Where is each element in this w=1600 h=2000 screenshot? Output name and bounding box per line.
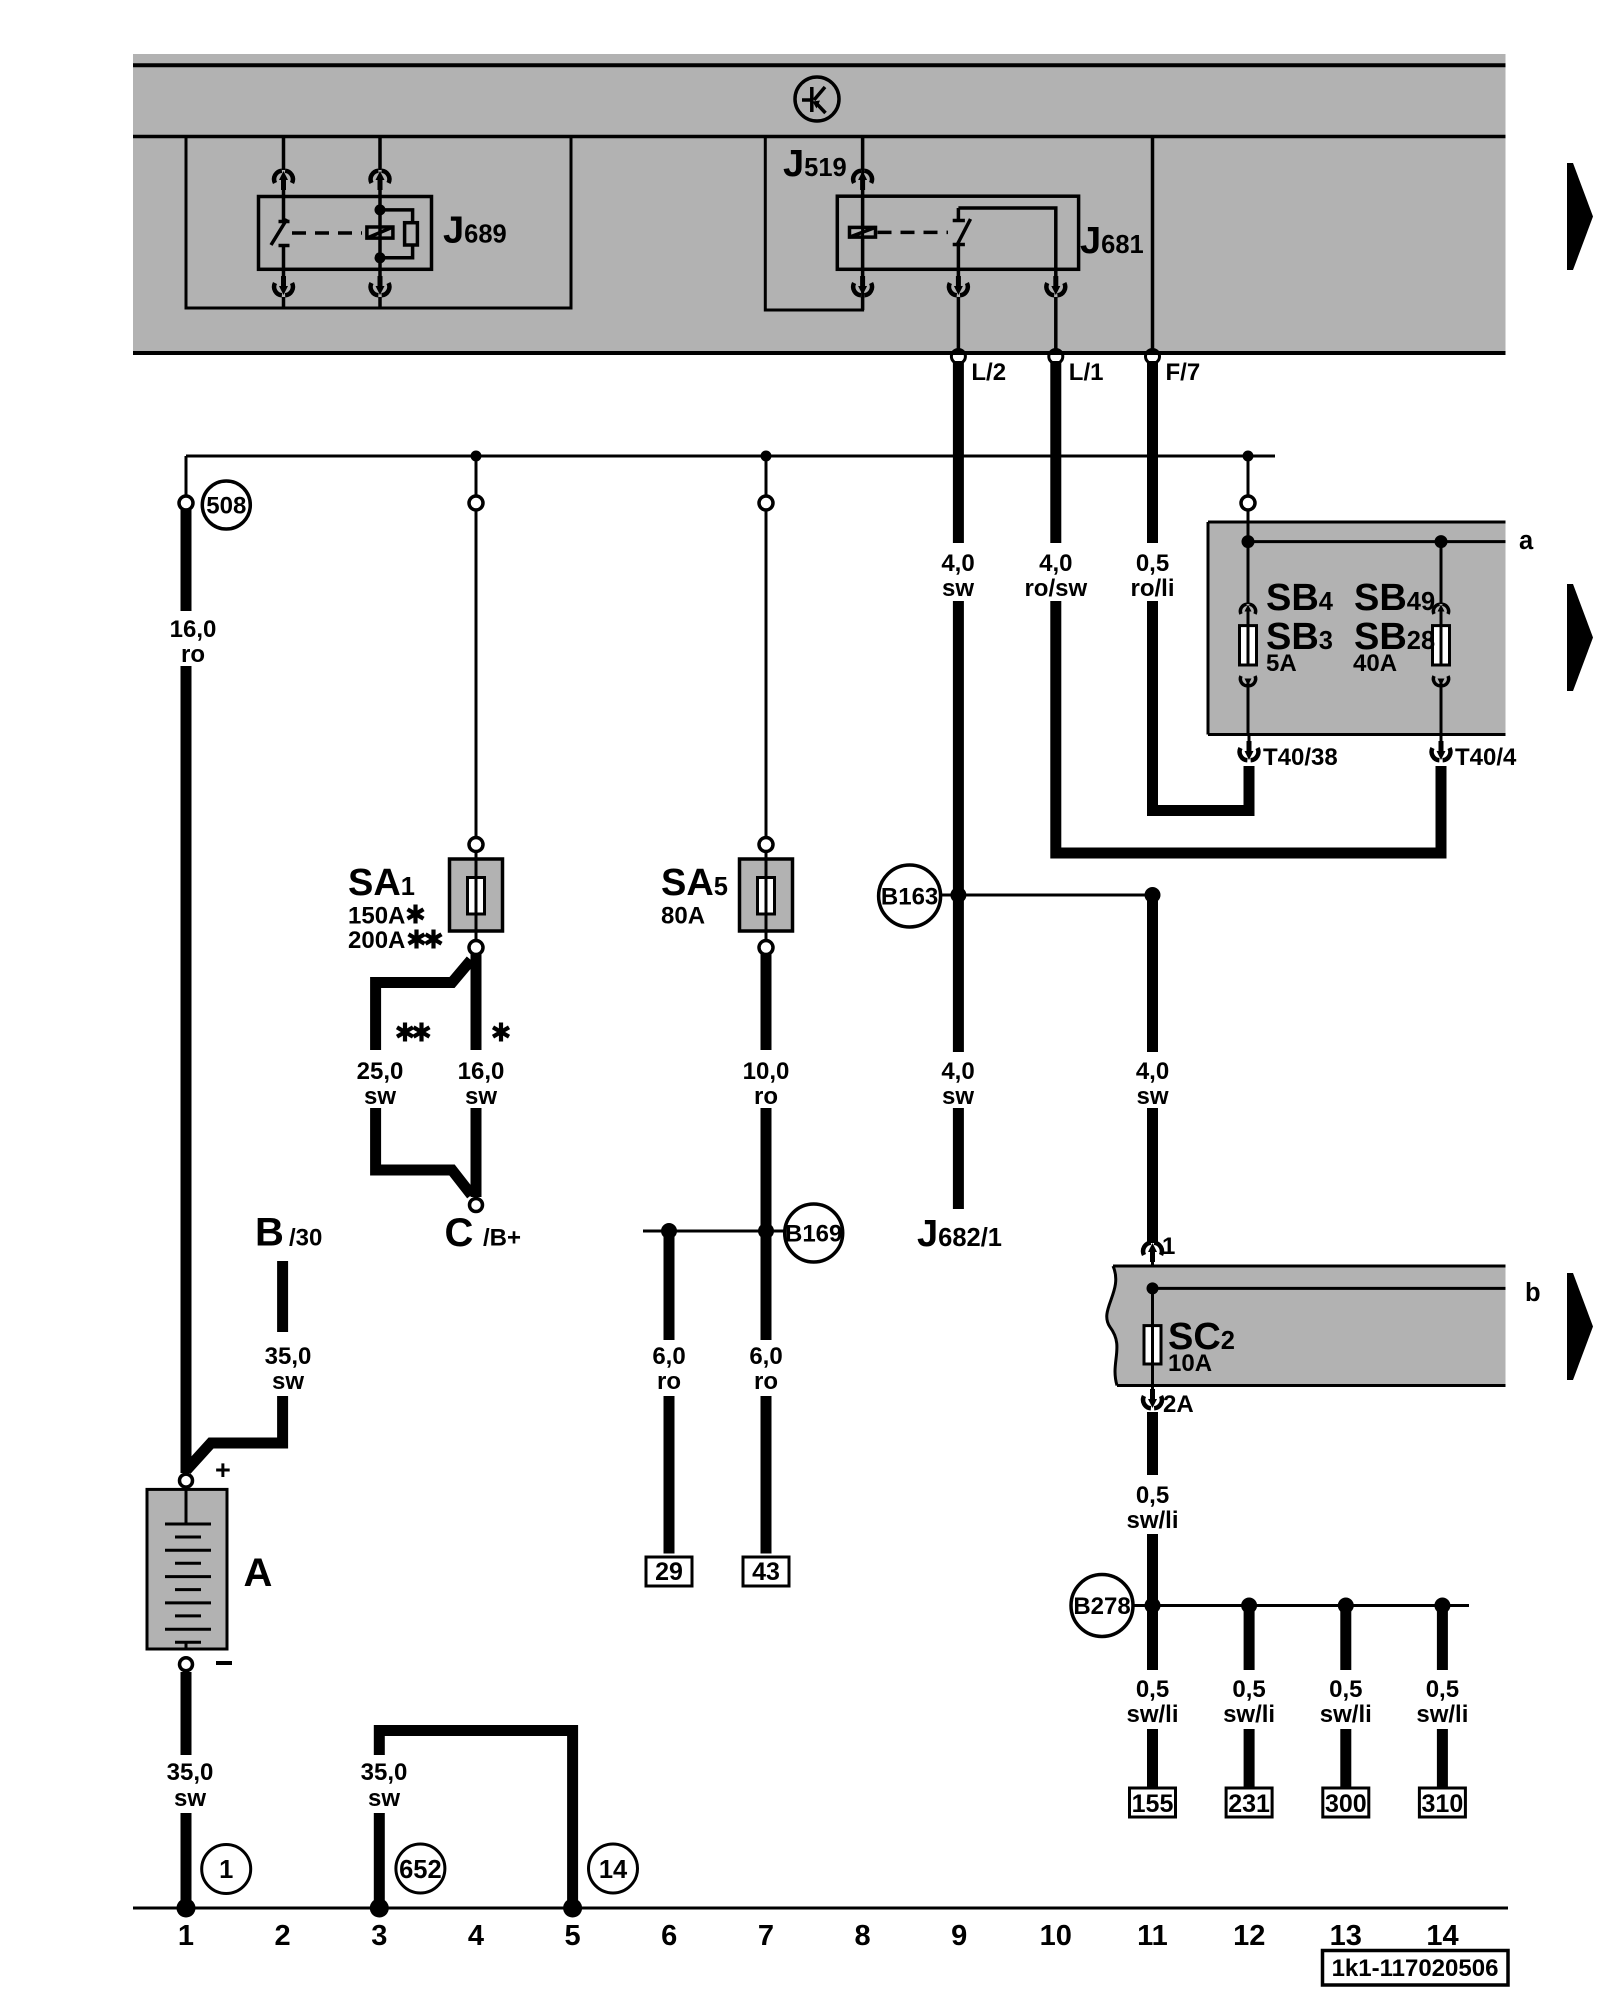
wire 10,0 ro xyxy=(761,954,772,1340)
current track numbers xyxy=(178,1920,1459,1952)
chassis ground rail xyxy=(133,1907,1508,1910)
internal rail a xyxy=(1242,535,1506,548)
ground label circle 14 xyxy=(589,1844,638,1893)
fuse SB28/SB49 xyxy=(1433,542,1450,735)
svg-text:6: 6 xyxy=(661,1920,677,1952)
svg-text:200A: 200A xyxy=(348,927,405,954)
svg-text:0,5: 0,5 xyxy=(1136,1676,1169,1703)
continuation arrow (top) xyxy=(1567,163,1593,270)
svg-text:sw/li: sw/li xyxy=(1416,1701,1468,1728)
wire 0,5 ro/li from F/7 to T40/38 xyxy=(1153,361,1250,811)
diagram number box 1k1-117020506 xyxy=(1323,1951,1509,1986)
J681 relay coil xyxy=(850,227,876,269)
wire 0,5 sw/li to ground 231 xyxy=(1244,1606,1255,1789)
fuse SA5 xyxy=(740,858,793,955)
J681 coil pin wire bottom xyxy=(853,269,872,310)
label * xyxy=(493,1023,509,1042)
battery minus terminal xyxy=(180,1658,233,1671)
J681 relay box xyxy=(837,196,1078,269)
relay J689 box xyxy=(259,197,432,270)
svg-text:4,0: 4,0 xyxy=(941,550,974,577)
node label circle B169 xyxy=(785,1204,843,1262)
node label circle B163 xyxy=(879,865,941,927)
svg-text:0,5: 0,5 xyxy=(1136,1482,1169,1509)
ground point 43 xyxy=(743,1557,789,1586)
terminal symbol (circle K) xyxy=(795,77,839,121)
fuse panel SC xyxy=(1107,1266,1506,1386)
wire 6,0 ro left branch xyxy=(664,1231,675,1554)
svg-text:sw/li: sw/li xyxy=(1320,1701,1372,1728)
pin 2A connector xyxy=(1143,1386,1194,1419)
svg-text:11: 11 xyxy=(1137,1920,1168,1952)
svg-text:sw: sw xyxy=(465,1083,497,1110)
svg-text:300: 300 xyxy=(1325,1790,1367,1818)
J681 output pin L/2 xyxy=(949,269,968,353)
internal rail b xyxy=(1147,1282,1506,1294)
label 150A* xyxy=(348,903,424,930)
label 200A** xyxy=(348,927,442,954)
svg-text:ro/li: ro/li xyxy=(1130,575,1174,602)
band terminal L/1 xyxy=(1049,350,1104,387)
ground point 155 xyxy=(1130,1788,1176,1818)
wire 35,0 sw terminal B /30 xyxy=(187,1261,283,1470)
pin T40/4 xyxy=(1432,735,1517,772)
svg-text:ro: ro xyxy=(754,1083,778,1110)
ground connection dot track1 xyxy=(177,1899,196,1918)
J689 pin wire top-left xyxy=(274,137,293,191)
relay carrier box for J689 xyxy=(186,137,571,309)
svg-text:B278: B278 xyxy=(1073,1593,1130,1620)
svg-text:13: 13 xyxy=(1330,1920,1362,1952)
ground point 310 xyxy=(1419,1788,1465,1818)
SA5 feed wire xyxy=(759,456,773,858)
J689 actuation dashed line xyxy=(292,231,362,235)
svg-text:4,0: 4,0 xyxy=(1039,550,1072,577)
fuse SA1 xyxy=(450,858,503,955)
svg-text:80A: 80A xyxy=(661,903,705,930)
svg-text:155: 155 xyxy=(1132,1790,1174,1818)
svg-text:sw: sw xyxy=(174,1785,206,1812)
svg-text:508: 508 xyxy=(206,493,246,520)
wire loop 25,0 sw / 16,0 sw to terminal C xyxy=(376,954,483,1212)
svg-text:652: 652 xyxy=(399,1856,442,1884)
fuse SB3/SB4 xyxy=(1240,542,1257,735)
svg-text:35,0: 35,0 xyxy=(167,1759,214,1786)
fuse panel SB xyxy=(1208,522,1506,735)
svg-text:5: 5 xyxy=(565,1920,581,1952)
svg-text:1k1-117020506: 1k1-117020506 xyxy=(1332,1955,1499,1982)
plus rail node 508 wire xyxy=(186,451,1275,462)
svg-text:310: 310 xyxy=(1422,1790,1464,1818)
svg-text:B: B xyxy=(255,1211,284,1255)
svg-text:sw/li: sw/li xyxy=(1126,1507,1178,1534)
svg-text:2: 2 xyxy=(275,1920,291,1952)
svg-text:25,0: 25,0 xyxy=(357,1058,404,1085)
svg-text:35,0: 35,0 xyxy=(265,1343,312,1370)
svg-text:b: b xyxy=(1525,1279,1541,1307)
svg-text:sw: sw xyxy=(368,1785,400,1812)
svg-text:L/2: L/2 xyxy=(971,359,1006,386)
svg-text:L/1: L/1 xyxy=(1069,359,1104,386)
ground label circle 1 xyxy=(202,1845,251,1894)
svg-text:ro: ro xyxy=(754,1368,778,1395)
wire 0,5 sw/li to ground 155 xyxy=(1147,1606,1158,1789)
continuation arrow (a) xyxy=(1567,584,1593,691)
band terminal L/2 xyxy=(951,350,1006,387)
node B278 branch line xyxy=(1133,1598,1469,1614)
svg-text:0,5: 0,5 xyxy=(1232,1676,1265,1703)
J681 switch contact xyxy=(953,208,1056,269)
node 508 connector xyxy=(179,456,193,510)
svg-text:35,0: 35,0 xyxy=(361,1759,408,1786)
svg-text:43: 43 xyxy=(752,1558,780,1586)
svg-text:150A: 150A xyxy=(348,903,405,930)
svg-text:8: 8 xyxy=(855,1920,871,1952)
svg-text:2A: 2A xyxy=(1163,1391,1194,1418)
wire 0,5 sw/li to ground 300 xyxy=(1340,1606,1351,1789)
svg-text:10: 10 xyxy=(1040,1920,1072,1952)
continuation arrow (b) xyxy=(1567,1273,1593,1380)
svg-text:T40/4: T40/4 xyxy=(1455,744,1517,771)
ground point 300 xyxy=(1323,1788,1369,1818)
svg-text:0,5: 0,5 xyxy=(1136,550,1169,577)
battery plus terminal xyxy=(180,1455,231,1487)
ground point 29 xyxy=(646,1557,692,1586)
svg-text:B169: B169 xyxy=(785,1221,842,1248)
svg-text:T40/38: T40/38 xyxy=(1263,744,1338,771)
svg-text:7: 7 xyxy=(758,1920,774,1952)
onboard supply control unit J519 box xyxy=(765,137,862,311)
J689 coil suppression resistor xyxy=(375,204,418,263)
svg-text:0,5: 0,5 xyxy=(1426,1676,1459,1703)
svg-text:sw/li: sw/li xyxy=(1126,1701,1178,1728)
svg-text:sw: sw xyxy=(942,575,974,602)
svg-text:+: + xyxy=(215,1455,231,1485)
J681 coil pin wire from J519 xyxy=(853,137,872,228)
svg-text:0,5: 0,5 xyxy=(1329,1676,1362,1703)
svg-text:4,0: 4,0 xyxy=(941,1058,974,1085)
svg-text:a: a xyxy=(1519,527,1534,555)
wire 4,0 ro/sw from L/1 to T40/4 xyxy=(1056,361,1441,853)
wire 4,0 sw to SC panel xyxy=(1147,895,1158,1243)
svg-text:sw: sw xyxy=(364,1083,396,1110)
J689 pin wire bottom-left xyxy=(274,269,293,308)
svg-text:sw: sw xyxy=(942,1083,974,1110)
pin 1 connector xyxy=(1143,1233,1175,1288)
svg-text:1: 1 xyxy=(1162,1233,1175,1260)
J681 output pin L/1 xyxy=(1046,269,1065,353)
svg-text:A: A xyxy=(244,1551,273,1595)
pin T40/38 xyxy=(1240,735,1338,772)
wire 0,5 sw/li to ground 310 xyxy=(1437,1606,1448,1789)
svg-text:16,0: 16,0 xyxy=(458,1058,505,1085)
node label circle B278 xyxy=(1071,1575,1133,1637)
svg-text:10A: 10A xyxy=(1168,1350,1212,1377)
SB feed wire from rail xyxy=(1241,461,1255,542)
band bottom edge redraw xyxy=(133,351,1506,355)
svg-text:sw: sw xyxy=(272,1368,304,1395)
svg-text:4,0: 4,0 xyxy=(1136,1058,1169,1085)
svg-text:1: 1 xyxy=(178,1920,194,1952)
svg-text:ro: ro xyxy=(181,641,205,668)
svg-text:/30: /30 xyxy=(289,1225,322,1252)
battery A xyxy=(147,1489,227,1649)
svg-text:6,0: 6,0 xyxy=(652,1343,685,1370)
J689 switch contact xyxy=(271,190,290,269)
svg-text:C: C xyxy=(445,1211,474,1255)
svg-text:9: 9 xyxy=(951,1920,967,1952)
node B163 branch line xyxy=(941,887,1161,903)
svg-text:sw: sw xyxy=(1136,1083,1168,1110)
J689 pin wire top-right xyxy=(371,137,390,197)
ground label circle 652 xyxy=(396,1844,445,1893)
svg-text:F/7: F/7 xyxy=(1166,359,1201,386)
node label circle 508 xyxy=(202,481,250,529)
svg-text:sw/li: sw/li xyxy=(1223,1701,1275,1728)
ground point 231 xyxy=(1226,1788,1272,1818)
svg-text:231: 231 xyxy=(1228,1790,1270,1818)
band pin F/7 wire xyxy=(1151,137,1155,354)
J681 actuation dashed line xyxy=(878,231,949,235)
SA1 feed wire xyxy=(469,456,483,858)
J689 pin wire bottom-right xyxy=(371,269,390,308)
band terminal F/7 xyxy=(1146,350,1201,387)
svg-text:6,0: 6,0 xyxy=(749,1343,782,1370)
power distribution band (E-box) xyxy=(133,54,1506,353)
wire 0,5 sw/li to B278 xyxy=(1147,1412,1158,1606)
svg-text:29: 29 xyxy=(655,1558,683,1586)
wire 16,0 ro (battery plus) xyxy=(181,510,192,1474)
fuse SC2 xyxy=(1144,1288,1161,1385)
label ** xyxy=(397,1023,430,1042)
svg-text:40A: 40A xyxy=(1353,650,1397,677)
wire 4,0 sw from L/2 xyxy=(953,361,964,1209)
svg-text:16,0: 16,0 xyxy=(170,616,217,643)
svg-text:1: 1 xyxy=(219,1856,233,1884)
svg-text:B163: B163 xyxy=(881,884,938,911)
svg-text:14: 14 xyxy=(599,1856,628,1884)
node B169 branch line xyxy=(643,1223,785,1239)
svg-text:ro: ro xyxy=(657,1368,681,1395)
svg-text:/B+: /B+ xyxy=(483,1225,521,1252)
svg-text:4: 4 xyxy=(468,1920,484,1952)
svg-text:12: 12 xyxy=(1233,1920,1265,1952)
J689 relay coil xyxy=(367,197,393,270)
svg-text:10,0: 10,0 xyxy=(743,1058,790,1085)
wire 6,0 ro right branch xyxy=(761,1396,772,1554)
svg-text:14: 14 xyxy=(1426,1920,1458,1952)
svg-text:3: 3 xyxy=(371,1920,387,1952)
svg-text:5A: 5A xyxy=(1266,650,1297,677)
svg-text:ro/sw: ro/sw xyxy=(1024,575,1087,602)
ground strap 35,0 sw (652 to 14) xyxy=(370,1731,582,1918)
wire 35,0 sw battery minus xyxy=(181,1672,192,1908)
